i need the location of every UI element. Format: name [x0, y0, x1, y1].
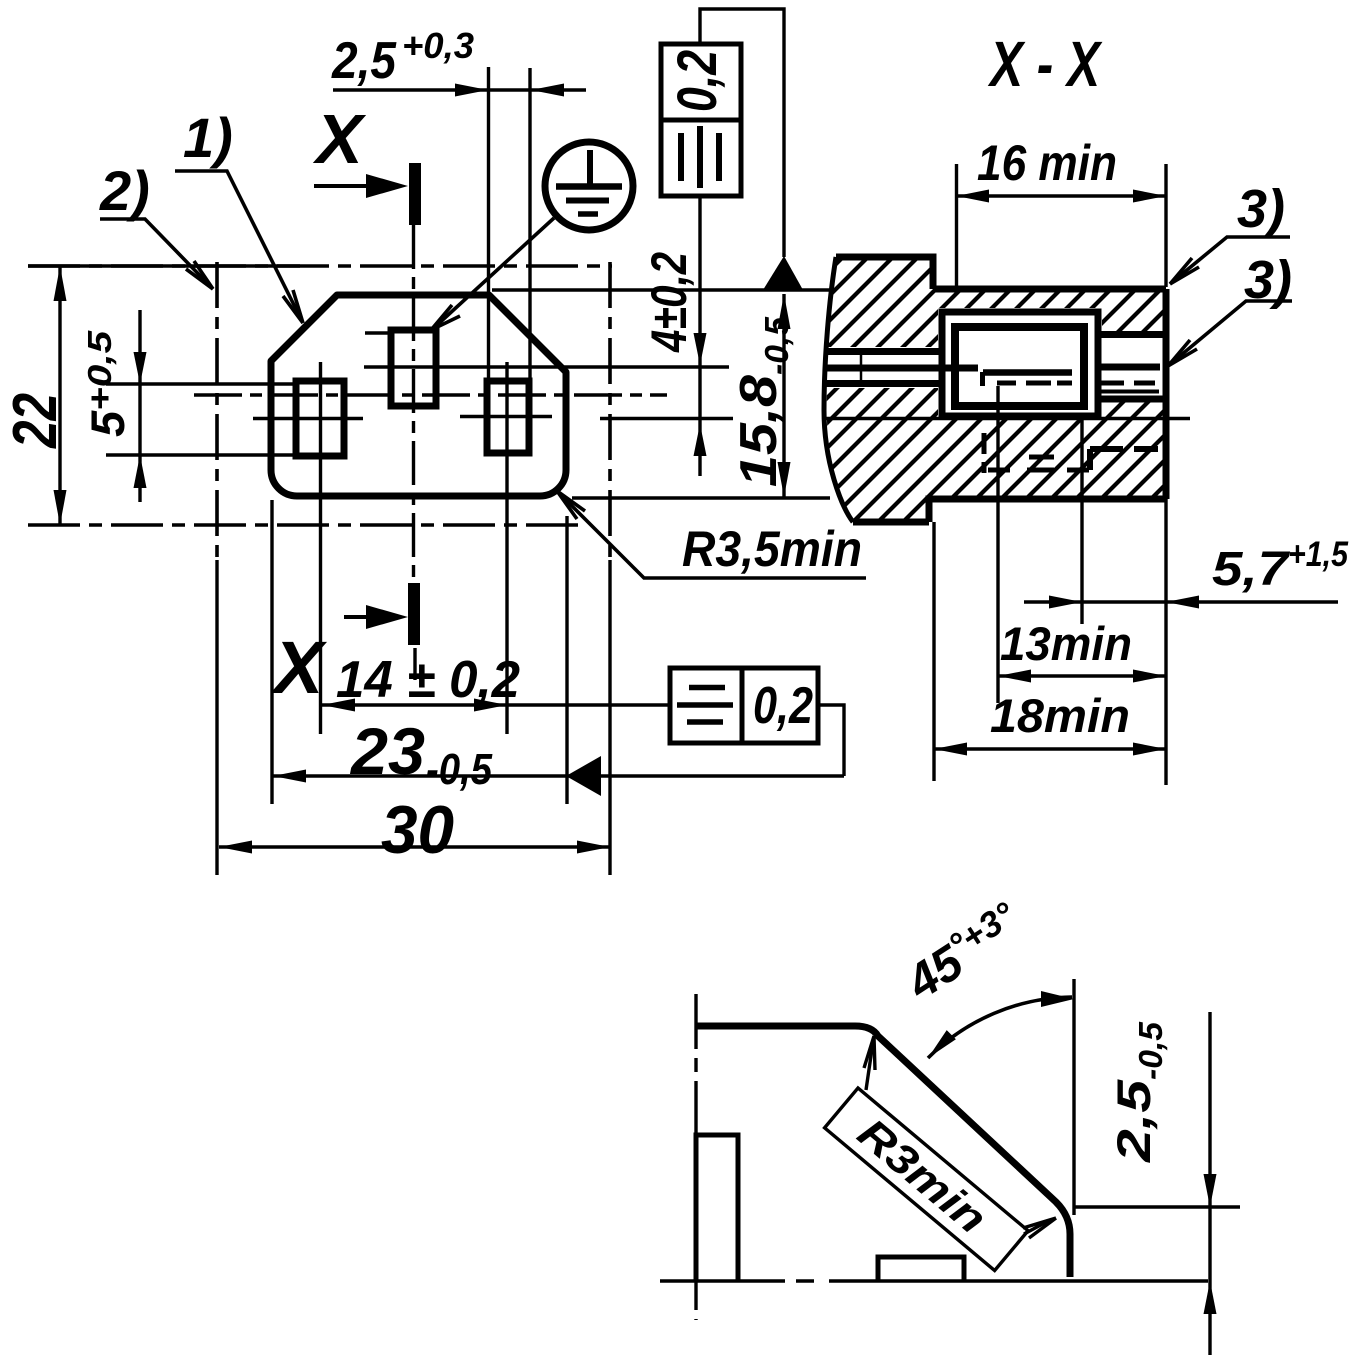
right wall hidden dashes: [1099, 381, 1155, 386]
dim 14±0,2 line + leader to lower frame: [322, 703, 670, 706]
R3min slanted box: [825, 1088, 1028, 1271]
inner step vertical: [980, 372, 985, 386]
section axis line: [825, 417, 1190, 420]
svg-text:X: X: [312, 100, 367, 178]
hidden contour vertical left: [982, 433, 987, 473]
white clearing: flange slot: [818, 347, 942, 388]
svg-text:30: 30: [381, 792, 454, 868]
right wall pin hole top edge: [1098, 331, 1166, 338]
white clearing: cavity opening: [938, 308, 1102, 420]
dim 2,5-0,5 line: [1208, 1012, 1211, 1355]
R3min arrow to chamfer top: [866, 1042, 873, 1090]
2,5 ext line left: [487, 67, 490, 381]
detail rib rectangle: [878, 1257, 964, 1281]
23 left ext line: [270, 500, 273, 804]
svg-text:3): 3): [1237, 179, 1285, 239]
detail vertical reference line: [1072, 979, 1075, 1215]
dim 5,7 ext line: [1080, 419, 1083, 624]
center line tail below bottom bar: [413, 648, 416, 680]
dim 5,7 line + arrows: [1024, 600, 1338, 603]
hidden line inside recess: [997, 381, 1072, 386]
svg-text:R3,5min: R3,5min: [682, 521, 862, 577]
label 3) upper leader: [1170, 237, 1290, 284]
svg-text:2): 2): [99, 159, 150, 222]
earth leader: [436, 218, 554, 326]
section plane bar bottom: [408, 583, 420, 645]
detail left phantom vertical: [694, 994, 697, 1320]
earth bar 2: [566, 198, 609, 204]
section arrow bottom: [344, 615, 380, 619]
earth leader arrow: [431, 305, 460, 330]
detail chamfer bottom reference line: [1074, 1205, 1240, 1208]
svg-text:1): 1): [183, 106, 233, 169]
dim 2,5+0,3 line: [333, 88, 586, 91]
angle arc 45°: [928, 997, 1072, 1058]
flange slot line top: [827, 348, 940, 355]
svg-text:X - X: X - X: [988, 28, 1103, 100]
section plane bar top: [409, 163, 421, 225]
slot divider tick: [860, 352, 863, 384]
tolerance frame bottom: [670, 668, 818, 743]
hidden short dash mid: [1029, 455, 1054, 460]
right pin crosshair horizontal: [460, 415, 552, 418]
right wall pin hole bottom edge: [1098, 396, 1166, 403]
bottom edge extension right: [572, 496, 830, 499]
svg-text:22: 22: [1, 393, 70, 449]
phantom line bottom: [28, 523, 581, 527]
dim 16min line: [957, 194, 1167, 197]
hidden upper dashes right: [1090, 446, 1158, 452]
body bottom edge: [929, 499, 1166, 522]
dim 13min line: [998, 674, 1166, 677]
right wall thin line: [1099, 390, 1159, 394]
svg-text:5,7: 5,7: [1212, 543, 1291, 596]
svg-text:2,5: 2,5: [331, 32, 397, 90]
detail pin rectangle: [696, 1135, 738, 1281]
svg-text:4±0,2: 4±0,2: [641, 252, 697, 353]
dim 23-0,5 line: [273, 774, 844, 777]
dim 30 line: [219, 845, 610, 848]
horizontal axis of view: [194, 393, 667, 396]
section arrow top: [314, 184, 380, 188]
svg-text:-0,5: -0,5: [426, 745, 492, 794]
left pin crosshair horizontal: [253, 417, 363, 420]
top edge extension right (datum line): [492, 288, 830, 291]
dim 15,8-0,5 line: [782, 294, 785, 497]
label 3) lower leader: [1168, 301, 1292, 366]
ground hole center line: [364, 365, 729, 368]
tolerance frame bottom symbol: [677, 688, 733, 723]
R3,5min leader: [557, 491, 866, 578]
23 right ext line: [565, 516, 568, 804]
dim 13min ext line: [996, 386, 999, 703]
flange wavy broken-out left edge: [824, 257, 853, 522]
tolerance frame top symbol (three strokes): [681, 126, 719, 188]
vertical section/center line: [412, 225, 415, 583]
phantom line right vertical: [608, 262, 612, 560]
left pin vertical center line: [319, 362, 322, 734]
datum leader to top tolerance frame: [700, 9, 784, 257]
ground hole top edge extension: [365, 331, 392, 334]
svg-text:+1,5: +1,5: [1288, 535, 1348, 574]
label 2) leader: [100, 219, 213, 289]
svg-text:14 ± 0,2: 14 ± 0,2: [336, 651, 520, 709]
right pin vertical center line: [505, 362, 508, 734]
hidden contour lower dashes: [988, 468, 1089, 473]
2,5 ext line right: [528, 68, 531, 381]
svg-text:18min: 18min: [990, 689, 1130, 742]
cavity outer rect: [942, 312, 1098, 416]
dim 4±0,2 line: [698, 196, 701, 476]
right wall pin hole middle: [1098, 364, 1160, 371]
R3min arrow to chamfer bottom: [1024, 1220, 1050, 1234]
earth vertical stroke: [587, 150, 593, 186]
right pin hole: [487, 381, 529, 453]
detail top face line: [697, 1026, 1070, 1277]
ground pin hole: [391, 330, 436, 406]
leader from bottom frame to 23 dim: [818, 705, 844, 776]
svg-text:0,2: 0,2: [753, 677, 813, 735]
dim 16min ext lines: [957, 164, 1167, 289]
inner recess floor line: [983, 369, 1072, 376]
body right edge: [1163, 289, 1170, 499]
dim 18min ext line: [932, 522, 935, 781]
dim 22 line: [58, 266, 61, 525]
dim 5+0,5 arrows: [138, 310, 141, 502]
4±0,2 lower reference line: [600, 417, 733, 420]
flange slot line bottom: [825, 380, 940, 387]
svg-text:0,2: 0,2: [665, 50, 728, 112]
body right edge extension down: [1164, 499, 1167, 785]
earth bar 3: [578, 211, 598, 217]
left pin hole: [296, 381, 344, 456]
pin top extension (5 dim): [106, 382, 296, 385]
dim 18min line: [934, 747, 1166, 750]
earth bar 1: [556, 183, 622, 190]
connector outline: [271, 295, 566, 496]
svg-text:13min: 13min: [1000, 617, 1132, 670]
datum triangle right (23 dim): [566, 756, 601, 796]
svg-text:+0,3: +0,3: [402, 25, 474, 66]
section X-X hatched body silhouette: [818, 257, 1166, 522]
flange top edge: [836, 257, 933, 289]
svg-text:X: X: [270, 626, 328, 709]
flange bottom edge: [853, 519, 929, 526]
phantom right extension down: [608, 560, 611, 875]
cavity inner rect: [955, 327, 1084, 406]
hidden step vertical: [1087, 449, 1093, 470]
body top edge: [933, 286, 1166, 293]
phantom line left vertical: [215, 262, 219, 560]
earth symbol circle: [545, 142, 633, 230]
tolerance frame top: [661, 44, 741, 196]
phantom left extension down: [215, 560, 218, 875]
label 1) leader: [175, 171, 303, 323]
phantom line top (appliance opening): [28, 264, 612, 268]
pin bottom extension (5 dim): [106, 453, 296, 456]
white clearing: right wall pin hole: [1098, 338, 1166, 396]
svg-text:16 min: 16 min: [977, 135, 1117, 191]
datum triangle top: [763, 256, 803, 290]
flange slot line middle: [825, 365, 978, 372]
22 top extension: [28, 264, 300, 267]
detail bottom face line: [660, 1279, 1208, 1283]
svg-text:23: 23: [349, 714, 425, 788]
